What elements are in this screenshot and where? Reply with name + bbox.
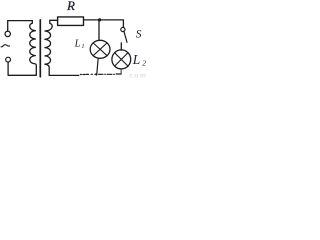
wire: lamp L2 bottom lead bbox=[120, 69, 122, 74]
AC source bottom terminal bbox=[6, 57, 11, 62]
AC source tilde symbol bbox=[1, 45, 9, 47]
switch S pivot bbox=[121, 27, 125, 31]
lamp L2 cross bbox=[115, 53, 128, 66]
lamp L1 cross bbox=[93, 43, 107, 56]
switch S lever bbox=[124, 31, 127, 42]
AC source top terminal bbox=[5, 31, 10, 36]
svg-text:L: L bbox=[74, 39, 81, 50]
lamp L2 bulb bbox=[112, 50, 131, 69]
wire: switch to lamp L2 bbox=[120, 43, 122, 50]
svg-text:2: 2 bbox=[142, 58, 146, 67]
transformer core bbox=[39, 20, 41, 77]
svg-text:S: S bbox=[136, 29, 142, 41]
svg-text:R: R bbox=[66, 0, 75, 13]
wire: lamp L1 bottom lead bbox=[97, 58, 99, 75]
svg-text:com: com bbox=[129, 72, 147, 78]
wire: primary bottom rail bbox=[8, 62, 36, 75]
wire: primary top rail from source to primary coil bbox=[8, 21, 33, 32]
wire: top rail from resistor to switch bbox=[84, 20, 124, 28]
wire: secondary bottom rail (solid part) bbox=[49, 74, 79, 76]
junction node dot bbox=[98, 18, 101, 21]
resistor R body bbox=[58, 17, 84, 26]
svg-text:1: 1 bbox=[81, 43, 84, 50]
primary winding of transformer T bbox=[30, 21, 37, 76]
secondary winding of transformer T bbox=[45, 20, 58, 75]
wire: branch down to lamp L1 bbox=[98, 20, 100, 41]
arrow head on bottom line at L1 lead bbox=[94, 73, 97, 76]
svg-text:L: L bbox=[132, 52, 141, 67]
dash-dot bottom line bbox=[80, 73, 121, 76]
lamp L1 bulb bbox=[90, 40, 110, 58]
